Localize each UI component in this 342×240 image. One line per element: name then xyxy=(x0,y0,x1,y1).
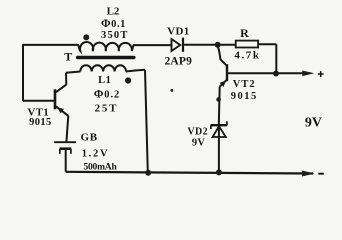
VT2 emitter arrow (PNP) xyxy=(220,81,226,87)
svg-text:GB: GB xyxy=(81,132,98,144)
inductor L1 winding xyxy=(80,65,126,71)
svg-text:9015: 9015 xyxy=(231,91,258,102)
junction dot bottom rail right xyxy=(216,169,222,175)
svg-text:25T: 25T xyxy=(95,103,118,115)
svg-text:L2: L2 xyxy=(107,6,120,18)
label VD1 xyxy=(167,26,190,38)
label 9015 (VT1) xyxy=(29,117,52,128)
label L2 xyxy=(107,6,120,18)
wire top node to VT2 collector xyxy=(218,45,227,66)
wire VT1 emitter to battery xyxy=(66,116,68,142)
wire L2 to VD1 xyxy=(133,44,171,46)
label GB xyxy=(81,132,98,144)
L1 phase dot xyxy=(125,77,131,83)
svg-text:L1: L1 xyxy=(98,75,111,86)
battery GB negative plate xyxy=(60,149,72,154)
svg-text:9V: 9V xyxy=(192,137,206,148)
label 25T xyxy=(95,103,118,115)
label T xyxy=(64,49,72,63)
wire VT1 base lead xyxy=(23,100,54,102)
svg-text:4.7k: 4.7k xyxy=(234,50,260,62)
label 500mAh xyxy=(83,163,117,173)
svg-text:2AP9: 2AP9 xyxy=(164,55,192,67)
diode VD1 cathode bar xyxy=(182,38,184,52)
VT1 emitter diagonal xyxy=(56,106,68,115)
L2 phase dot xyxy=(83,34,89,40)
svg-text:T: T xyxy=(64,49,72,63)
label 9V output xyxy=(305,116,322,131)
svg-text:500mAh: 500mAh xyxy=(83,163,117,173)
wire VT2 emitter to VD2 xyxy=(218,86,221,124)
wire L1 right lead xyxy=(126,70,145,72)
transistor VT2 base bar xyxy=(226,64,228,81)
zener VD2 cathode bar xyxy=(211,121,228,129)
wire top-left segment xyxy=(22,44,79,46)
plus sign xyxy=(318,71,324,77)
label 350T xyxy=(101,30,129,41)
wire right vertical R to plus line xyxy=(275,44,277,73)
svg-text:Φ0.2: Φ0.2 xyxy=(94,88,120,100)
label VT1 xyxy=(27,106,49,118)
transformer core T xyxy=(76,56,136,59)
svg-text:1.2V: 1.2V xyxy=(82,148,110,159)
wire plus output line xyxy=(228,72,304,74)
wire VD1 to resistor R xyxy=(183,44,236,46)
label phi 0.2 xyxy=(94,88,120,100)
label R xyxy=(240,26,249,40)
VT1 collector diagonal xyxy=(56,85,66,93)
wire VD2 to bottom rail xyxy=(218,137,220,172)
wire VT1 collector riser xyxy=(65,73,67,85)
label L1 xyxy=(98,75,111,86)
inductor L2 winding xyxy=(78,42,133,51)
label 1.2V xyxy=(82,148,110,159)
label 9015 (VT2) xyxy=(231,91,258,102)
label VD2 xyxy=(187,126,208,137)
label 4.7k xyxy=(234,50,260,62)
svg-text:R: R xyxy=(240,26,249,40)
svg-text:Φ0.1: Φ0.1 xyxy=(101,18,126,30)
junction dot top node xyxy=(215,42,221,48)
wire right-mid vertical xyxy=(145,70,148,173)
label 2AP9 xyxy=(164,55,192,67)
zener VD2 triangle xyxy=(213,126,226,138)
wire L1 left lead xyxy=(66,72,80,73)
transistor VT1 base bar xyxy=(54,89,57,109)
battery GB positive plate xyxy=(54,141,76,143)
svg-text:VT2: VT2 xyxy=(233,79,256,90)
plus line arrowhead xyxy=(302,71,314,77)
bottom rail arrowhead (minus output) xyxy=(302,171,315,177)
junction dot emitter wire xyxy=(216,97,221,102)
svg-text:9015: 9015 xyxy=(29,117,52,128)
junction dot plus line xyxy=(273,71,279,77)
svg-text:VD1: VD1 xyxy=(167,26,190,38)
resistor R body xyxy=(236,41,258,48)
wire left rail xyxy=(22,45,24,101)
VT1 emitter arrow (PNP) xyxy=(58,108,65,114)
svg-text:9V: 9V xyxy=(305,116,322,131)
diode VD1 triangle xyxy=(172,39,181,51)
svg-text:VD2: VD2 xyxy=(187,126,208,137)
junction dot bottom rail left xyxy=(145,170,151,176)
svg-text:350T: 350T xyxy=(101,30,129,41)
ink speck xyxy=(170,89,173,92)
label 9V (VD2) xyxy=(192,137,206,148)
wire bottom rail xyxy=(66,172,313,174)
label VT2 xyxy=(233,79,256,90)
wire battery to bottom rail xyxy=(65,150,67,172)
label phi 0.1 xyxy=(101,18,126,30)
VT2 emitter diagonal xyxy=(220,80,227,87)
wire R right to corner xyxy=(258,43,276,45)
minus sign xyxy=(318,173,324,175)
